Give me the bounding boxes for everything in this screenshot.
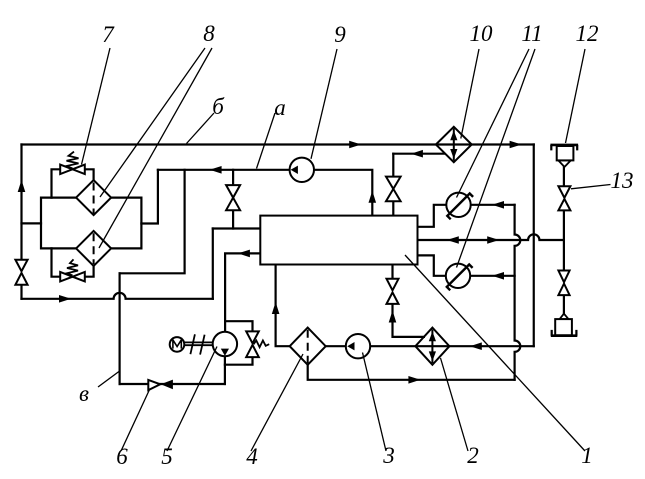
svg-text:4: 4 [246, 444, 258, 469]
callout 11 lower [457, 49, 536, 268]
pump 9 [290, 158, 314, 182]
arrow left on main line to cooler2 [470, 342, 482, 350]
motor M letter [173, 340, 181, 349]
pump 5 flow triangle [221, 349, 229, 356]
relief valve pump5 bowtie [246, 331, 259, 343]
wire bypass bottom loop [52, 248, 94, 276]
arrow up on left bus [18, 180, 26, 192]
pump 5 [213, 332, 237, 356]
tank breather bottom [551, 314, 578, 336]
filter 8 upper diamond [76, 180, 111, 215]
wire bypass top loop [52, 169, 94, 197]
arrow up into pump9 branch [369, 191, 377, 203]
arrow up on diamond4 riser [272, 302, 280, 314]
motor 11a variable arrow [447, 194, 473, 220]
callout 5 [167, 347, 217, 452]
wire vertical B [533, 145, 535, 347]
callout 2 [441, 358, 469, 451]
svg-text:8: 8 [203, 21, 215, 46]
wire vertical A [515, 205, 521, 380]
wire staircase to line a [120, 170, 185, 273]
wire main line y346 left part [326, 345, 346, 347]
flow arrows [18, 141, 522, 384]
motor 11b variable arrow [447, 265, 473, 291]
callout 8 lower [99, 48, 212, 248]
wire tank column [563, 167, 565, 314]
wire pump5 bottom [224, 356, 226, 384]
callout v [98, 371, 120, 387]
svg-text:1: 1 [581, 443, 593, 468]
valve x393 top [386, 177, 401, 189]
wire diamond4 left riser [276, 265, 290, 347]
arrow right on bottom-left line [59, 295, 71, 303]
wire valve line x392 bottom [393, 265, 424, 337]
filter 4 dashed element [307, 330, 309, 363]
svg-text:в: в [79, 381, 89, 406]
wire middle line y240 with hops [418, 234, 564, 240]
svg-text:13: 13 [611, 168, 634, 193]
wire stub2 to pump5 [225, 253, 260, 331]
motor 11 lower [446, 264, 470, 288]
wire motor11b left Z [418, 255, 446, 275]
arrow right on bottom line [408, 376, 420, 384]
wire valve line x393 top [392, 154, 394, 216]
arrow left to motor11a [492, 201, 504, 209]
wire left bus vertical [20, 145, 22, 299]
arrow right on middle line [487, 236, 499, 244]
callout b [187, 113, 215, 144]
wire line a [158, 169, 290, 171]
tank breather 12 top [550, 145, 578, 167]
svg-text:6: 6 [116, 444, 128, 469]
wire pump9 to rect [314, 170, 372, 216]
wire y228.5 to unit 1 [213, 227, 260, 229]
callout 7 [82, 48, 111, 165]
callout 8 upper [100, 48, 205, 197]
valve below line a x233 [226, 185, 240, 198]
arrow left on y153.7 [411, 150, 423, 158]
svg-text:10: 10 [470, 21, 494, 46]
wire v vertical [118, 273, 120, 384]
wire pump5 suction bottom [120, 383, 225, 385]
wire riser x212.8 [212, 229, 214, 299]
wire top bus b [22, 143, 534, 145]
callout 11 upper [457, 49, 530, 198]
spring of pump5 relief valve [254, 341, 270, 348]
spring of relief valve 7 bottom [67, 259, 78, 275]
callout 4 [251, 354, 303, 451]
cooler 2 diamond [415, 328, 449, 365]
svg-text:11: 11 [521, 21, 542, 46]
valve lower right column [558, 271, 569, 283]
arrow up on valve392 line [389, 311, 397, 323]
cooler 10 diamond [436, 127, 472, 162]
unit 1 rectangle [260, 216, 417, 265]
wire loop branch to riser [141, 170, 158, 224]
wire main line y346 right with hop [370, 345, 534, 347]
filter 8b dashed element [93, 233, 95, 264]
arrow left on stub2 [238, 250, 250, 258]
cooler 10 internal arrow [450, 129, 457, 161]
wire filter loop rectangle [41, 198, 141, 249]
callout 10 [461, 49, 479, 139]
svg-text:12: 12 [576, 21, 599, 46]
callout a [257, 113, 276, 169]
callout 6 [121, 389, 150, 452]
valve left bus [15, 260, 27, 272]
wire y153.7 line [393, 153, 444, 155]
wire link left bus to loop [22, 222, 42, 224]
filter 8 lower diamond [76, 231, 111, 266]
relief valve 7 bottom bowtie [60, 272, 72, 281]
svg-text:9: 9 [334, 22, 346, 47]
svg-text:2: 2 [467, 443, 479, 468]
svg-text:а: а [274, 95, 286, 120]
check valve 6 open triangle [148, 380, 160, 390]
pump 9 flow triangle [291, 166, 298, 174]
arrow right on top bus left [349, 141, 361, 149]
arrow left on middle line [447, 236, 459, 244]
pump 3 [346, 334, 370, 358]
relief valve 7 top bowtie [60, 165, 72, 174]
valve 13 [558, 186, 570, 198]
callout 13 [571, 185, 611, 189]
valve x392 bottom [387, 279, 399, 291]
arrow left on line a [210, 166, 222, 174]
callout 1 [405, 255, 585, 451]
motor M shaft and coupling [185, 334, 213, 354]
filter 8a dashed element [93, 183, 95, 214]
arrow right on top bus right [510, 141, 522, 149]
callout 12 [566, 49, 586, 143]
svg-text:7: 7 [102, 22, 115, 47]
wire relief branch pump5 [225, 321, 253, 365]
wire bottom line y379.8 [308, 365, 515, 380]
callout lines [82, 48, 611, 451]
wire motor11a right line [471, 204, 515, 206]
arrow left to motor11b [492, 272, 504, 280]
wire bottom-left line with hop [22, 293, 213, 299]
callout 3 [363, 353, 387, 452]
wire motor11b right line [470, 275, 514, 277]
svg-text:б: б [212, 94, 225, 119]
callout 9 [311, 49, 337, 159]
wire valve line x233 [232, 170, 234, 229]
wire motor11a left Z [418, 205, 447, 227]
check valve 6 flow arrow [161, 380, 173, 390]
electric motor M [170, 337, 185, 352]
svg-text:3: 3 [382, 443, 395, 468]
motor 11 upper [446, 193, 470, 217]
filter 4 diamond [290, 328, 326, 365]
spring of relief valve 7 top [67, 152, 79, 169]
pump 3 flow triangle [347, 342, 354, 350]
cooler 2 internal arrow [429, 330, 436, 364]
svg-text:5: 5 [161, 444, 173, 469]
